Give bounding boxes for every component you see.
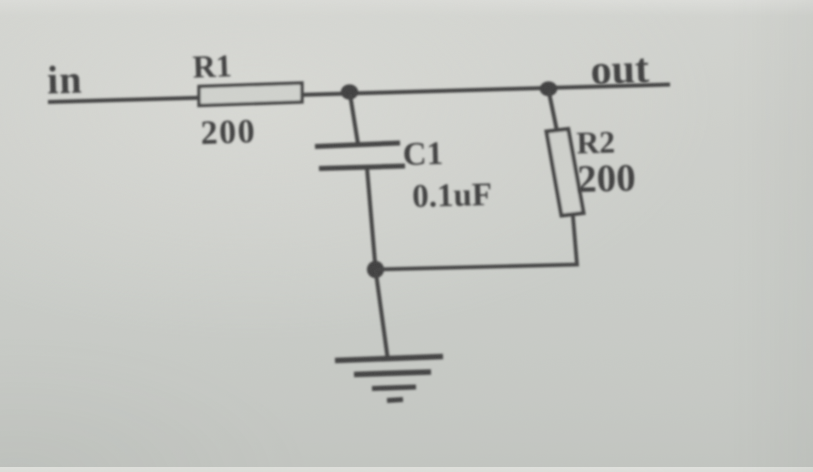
wire: bottom rail from node C to R2 bottom corner <box>376 215 578 270</box>
wire: node C down to ground <box>376 270 388 358</box>
wire: top rail from "in" through R1 to "out" <box>48 85 670 103</box>
capacitor C1 bottom plate <box>319 166 405 169</box>
resistor R1 <box>199 83 302 106</box>
node C: bottom junction of C1, R2 branch, ground <box>367 261 384 278</box>
node B: junction at "out" with R2 <box>540 81 558 96</box>
wire: node B down to R2 top <box>549 90 558 131</box>
ground <box>335 357 443 401</box>
capacitor C1 top plate <box>315 143 400 147</box>
node A: junction of R1, C1, out rail <box>341 84 358 99</box>
resistor R2 <box>547 129 584 216</box>
wire: node A down to C1 top plate <box>350 94 358 144</box>
wire: C1 bottom plate down to node C <box>367 168 376 268</box>
